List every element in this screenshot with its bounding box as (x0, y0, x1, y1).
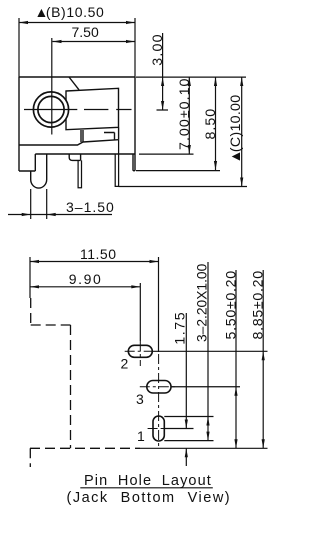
dim 10.00 vertical (241, 77, 243, 187)
pin hole 1 (153, 416, 164, 441)
extension y154 (139, 153, 194, 155)
svg-text:2: 2 (121, 356, 129, 372)
dim line 9.90 (30, 286, 140, 288)
extension line right x135 (134, 18, 136, 77)
barrel (pin housing) (66, 88, 119, 129)
dim line 7.50 (53, 41, 136, 43)
texts bottom view (69, 246, 267, 444)
svg-text:8.50: 8.50 (203, 108, 219, 140)
svg-text:▲(C)10.00: ▲(C)10.00 (228, 95, 244, 164)
svg-text:1.75: 1.75 (173, 311, 189, 345)
caption (67, 473, 232, 506)
arrows 11.50 (30, 260, 39, 263)
svg-text:▲(B)10.50: ▲(B)10.50 (35, 4, 105, 20)
jack body outline (side view) (19, 77, 135, 171)
caption underline (80, 487, 213, 489)
centerline horizontal (top view) (24, 109, 132, 111)
extension x30 (29, 257, 31, 298)
hole1 center extension (164, 428, 193, 430)
barrel supports under bushing (81, 128, 119, 142)
hole1 edge extensions (164, 417, 213, 441)
svg-text:1: 1 (137, 428, 145, 444)
bushing outer circle (33, 92, 68, 127)
dim 3-1.50 (8, 189, 112, 219)
extension x158.5 (158, 257, 160, 352)
svg-text:9.90: 9.90 (69, 271, 103, 287)
extension top y77 (136, 76, 246, 78)
extension y186.5 (119, 186, 248, 188)
svg-text:8.85±0.20: 8.85±0.20 (251, 270, 267, 339)
dim 2.20x1.00 vertical (207, 262, 209, 441)
dim 1.75 vertical (185, 313, 187, 466)
extension y170 (136, 170, 220, 172)
dashed body outline (bottom view) (30, 298, 140, 467)
svg-text:(Jack Bottom View): (Jack Bottom View) (67, 490, 232, 506)
dim 3.00 vertical (157, 33, 169, 110)
dimension texts top view (35, 4, 245, 215)
arrows 1.75 (185, 420, 188, 429)
front edge solid part (140, 447, 268, 449)
dim 8.50 vertical (215, 77, 217, 170)
svg-text:11.50: 11.50 (80, 246, 117, 262)
extension line left x19 (18, 18, 20, 77)
svg-text:7.50: 7.50 (72, 24, 99, 40)
svg-text:7.00±0.10: 7.00±0.10 (177, 78, 193, 150)
bushing inner circle (38, 96, 64, 122)
svg-text:5.50±0.20: 5.50±0.20 (223, 270, 239, 339)
arrows 8.85 (262, 351, 265, 360)
arrows bottom view (30, 260, 265, 457)
extension x140.3 (139, 283, 141, 341)
svg-text:3–1.50: 3–1.50 (66, 199, 115, 215)
hole3 center extension (171, 386, 240, 388)
dim line 11.50 (30, 261, 159, 263)
arrows top view (19, 21, 243, 216)
svg-text:3.00: 3.00 (150, 33, 166, 65)
svg-text:3: 3 (136, 391, 144, 407)
arrows 9.90 (30, 285, 39, 288)
arrows 5.50 (234, 387, 237, 396)
dim line B10.50 (19, 22, 135, 24)
middle pin stub and leg (69, 154, 81, 188)
pin hole 3 (147, 381, 171, 394)
chamfer diagonal (69, 77, 79, 90)
hole2 center extension (152, 350, 267, 352)
front leg (rounded pin) (31, 154, 47, 188)
centerlines bottom view (125, 341, 177, 447)
rear pin leg (115, 140, 118, 187)
dim 7.00 vertical (188, 77, 190, 154)
centerline vertical through bushing (51, 38, 53, 135)
dim 5.50 vertical (235, 270, 237, 448)
svg-text:Pin Hole Layout: Pin Hole Layout (84, 473, 212, 489)
arrows 2.20 (206, 417, 209, 426)
svg-text:3–2.20X1.00: 3–2.20X1.00 (195, 263, 210, 342)
dim 8.85 vertical (262, 270, 264, 448)
pin hole 2 (128, 345, 152, 357)
